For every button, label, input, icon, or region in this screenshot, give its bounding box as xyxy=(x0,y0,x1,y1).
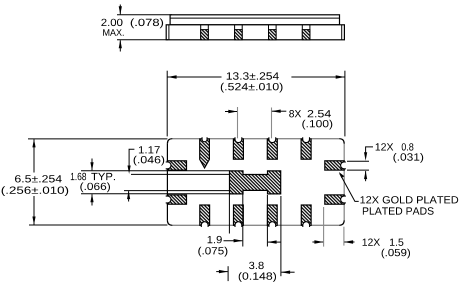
dim text 6.5±.254 xyxy=(15,175,62,182)
pad 11 lower left xyxy=(167,195,186,204)
dim text (.075) xyxy=(198,247,227,257)
dim text 12X 0.8 xyxy=(376,143,414,150)
dim 6.5 line upper segment with up arrow xyxy=(32,139,35,173)
castellation notch bottom pad7 xyxy=(303,222,310,227)
lid seam line xyxy=(170,17,339,19)
dim 1.5 right extension line xyxy=(343,227,345,246)
dim 0.8 lower extension line xyxy=(347,169,369,171)
package side view lid xyxy=(170,15,339,25)
center pad extension line L1 xyxy=(81,170,230,172)
dim 2.00 extension line bottom xyxy=(117,39,168,41)
dim 13.3 line left segment with arrow xyxy=(167,75,221,78)
pad 8 bottom xyxy=(267,205,277,225)
castellation notch bottom pad8 xyxy=(269,222,276,227)
castellation notch left pad12 xyxy=(166,162,171,169)
dim 2.54 arrow pointing left xyxy=(272,110,287,113)
dim 2.54 right extension line xyxy=(271,108,273,139)
dim 2.00 arrow down xyxy=(119,5,122,15)
corner arc top-right xyxy=(339,139,344,144)
dim text (.066) xyxy=(80,182,110,192)
body left end-cap line xyxy=(168,25,170,40)
dim text 1.68 TYP. xyxy=(71,173,115,180)
dim text (.031) xyxy=(393,153,423,163)
castellation notch top pad3 xyxy=(269,137,276,142)
pad 5 upper right xyxy=(325,161,344,170)
pad 10 bottom leftmost xyxy=(200,205,210,225)
pad 7 bottom rightmost xyxy=(301,205,311,225)
dim 13.3 right extension line xyxy=(344,71,346,137)
note text PLATED PADS xyxy=(363,207,434,214)
dim text 8X 2.54 xyxy=(289,110,331,117)
package side view body xyxy=(166,25,344,40)
dim 0.8 upper extension line xyxy=(347,160,369,162)
castellation notch bottom pad9 xyxy=(235,222,242,227)
note text 12X GOLD PLATED xyxy=(360,196,458,203)
dim text 2.00 (.078) xyxy=(101,18,163,28)
dim 2.00 extension line top xyxy=(117,14,172,16)
dim text 1.9 xyxy=(208,236,222,243)
dim 1.9 arrow pointing left xyxy=(267,240,281,243)
package outline right edge xyxy=(343,144,345,221)
center thermal pad xyxy=(230,171,281,194)
dim 13.3 line right segment with arrow xyxy=(291,75,345,78)
dim text (.256±.010) xyxy=(2,186,69,196)
center pad extension line L4 xyxy=(81,193,230,195)
dim text 1.17 xyxy=(139,146,160,153)
pad 4 top xyxy=(301,139,311,159)
extension line C bar right xyxy=(266,195,268,247)
dim 1.68 arrow up xyxy=(90,194,93,206)
dim 13.3 left extension line xyxy=(166,71,168,137)
pad 12 upper left xyxy=(167,161,186,170)
extension line A center pad left xyxy=(228,194,230,233)
package outline left edge xyxy=(166,144,168,221)
corner arc bottom-right xyxy=(339,220,344,225)
corner arc top-left xyxy=(167,139,172,144)
dim 6.5 bottom extension line xyxy=(29,224,167,226)
pad 9 bottom xyxy=(234,205,244,225)
dim 3.8 left tick xyxy=(227,266,229,281)
castellation notch top pad2 xyxy=(235,137,242,142)
dim 1.9 arrow pointing right xyxy=(224,239,243,242)
center pad extension line L3 xyxy=(124,190,230,192)
dim 1.68 arrow down xyxy=(90,159,93,171)
extension line D center pad right xyxy=(280,196,282,276)
dim text (.100) xyxy=(302,120,332,130)
dim 1.5 arrow pointing right xyxy=(312,240,323,243)
dim text 13.3±.254 xyxy=(227,72,279,79)
dim 6.5 line lower segment with down arrow xyxy=(32,196,35,225)
dim text 12X 1.5 xyxy=(363,239,404,246)
dim 1.5 left extension line xyxy=(323,207,325,247)
dim 2.00 arrow up xyxy=(119,40,122,52)
side view pad 4 xyxy=(302,25,310,40)
dim text (.059) xyxy=(382,249,410,259)
castellation notch right pad6 xyxy=(341,196,346,203)
side view pad 2 xyxy=(235,25,243,40)
dim 2.54 arrow pointing right xyxy=(225,110,238,113)
castellation notch top pad4 xyxy=(303,137,310,142)
pad 1 pin-1 pentagon xyxy=(200,139,210,168)
dim 1.17 arrow up xyxy=(127,191,130,202)
dim text (0.148) xyxy=(239,272,276,282)
pad 3 top xyxy=(267,139,277,159)
dim 3.8 arrow pointing left xyxy=(281,271,295,274)
dim 1.17 bracket with down arrow xyxy=(128,149,135,174)
dim 0.8 arrow up xyxy=(364,171,367,182)
center pad extension line L2 xyxy=(131,173,230,175)
package outline bottom edge xyxy=(172,224,339,226)
dim 3.8 arrow pointing right xyxy=(216,270,228,273)
dim 2.54 left extension line xyxy=(237,107,239,138)
side view pad 1 xyxy=(201,25,209,40)
pad 6 lower right xyxy=(325,195,344,204)
dim text (.524±.010) xyxy=(221,83,283,93)
side view pad 3 xyxy=(269,25,277,40)
corner arc bottom-left xyxy=(167,220,172,225)
dim text MAX. xyxy=(103,29,124,36)
castellation notch left pad11 xyxy=(166,196,171,203)
dim 0.8 bracket with down arrow xyxy=(364,147,373,161)
leader line gold plated pads xyxy=(339,172,359,201)
body right end-cap line xyxy=(341,25,343,40)
pad 2 top xyxy=(233,139,243,159)
castellation notch right pad5 xyxy=(341,162,346,169)
dim 1.5 arrow pointing left xyxy=(344,240,355,243)
package outline top edge xyxy=(172,138,339,140)
dim text (.046) xyxy=(134,156,165,166)
dim text 3.8 xyxy=(249,262,264,269)
extension line B bar left xyxy=(242,194,244,246)
castellation notch bottom pad10 xyxy=(201,222,208,227)
dim 6.5 top extension line xyxy=(28,138,167,140)
castellation notch pin1 xyxy=(202,137,207,142)
